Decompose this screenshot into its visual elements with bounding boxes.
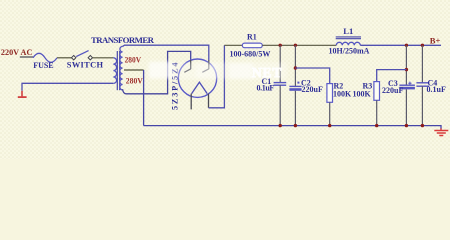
switch S1 terminal left bbox=[72, 56, 76, 60]
tube V1 left anode lead bbox=[190, 60, 192, 69]
rectifier tube V1 envelope bbox=[178, 59, 216, 97]
svg-text:FUSE: FUSE bbox=[33, 61, 53, 70]
wire C1 lower lead bbox=[279, 85, 281, 125]
node R3 tap bbox=[405, 68, 408, 71]
switch S1 blade bbox=[76, 51, 88, 57]
wire ground rail bbox=[144, 126, 441, 129]
svg-text:10H/250mA: 10H/250mA bbox=[329, 47, 370, 56]
svg-text:100-680/5W: 100-680/5W bbox=[230, 50, 271, 59]
inductor L1 winding bbox=[336, 42, 360, 45]
svg-text:B+: B+ bbox=[430, 35, 441, 45]
resistor R1 body bbox=[242, 43, 262, 48]
wire R2 lower lead bbox=[329, 102, 331, 125]
wire cathode rail to R1 bbox=[224, 44, 242, 46]
node rail C4 bbox=[421, 124, 424, 127]
transformer T1 primary winding bbox=[113, 58, 116, 84]
wire input underline bbox=[20, 56, 33, 58]
tube V1 cathode lead bbox=[208, 94, 210, 108]
switch S1 terminal right bbox=[88, 56, 92, 60]
node C1 top bbox=[279, 44, 282, 47]
node rail R3 bbox=[375, 124, 378, 127]
resistor R2 body bbox=[327, 84, 333, 103]
capacitor C2 bbox=[289, 85, 301, 87]
background paper bbox=[0, 0, 450, 159]
capacitor C2 polarity mark bbox=[297, 82, 299, 84]
wire C4 upper lead bbox=[421, 45, 423, 82]
node rail C2 bbox=[294, 124, 297, 127]
node R2 tap bbox=[294, 66, 297, 69]
svg-text:TRANSFORMER: TRANSFORMER bbox=[91, 35, 155, 45]
svg-text:SWITCH: SWITCH bbox=[67, 60, 104, 69]
wire secondary top tap to right anode bbox=[123, 45, 209, 60]
svg-text:280V: 280V bbox=[126, 77, 143, 86]
wire R3 tap horizontal bbox=[377, 70, 407, 82]
svg-text:220uF: 220uF bbox=[302, 85, 323, 94]
wire switch to transformer primary bbox=[93, 57, 114, 59]
wire secondary bottom tap to left anode bbox=[123, 51, 191, 93]
svg-text:220V AC: 220V AC bbox=[1, 48, 33, 57]
capacitor C3 bbox=[399, 84, 415, 86]
wire C2 branch vertical bbox=[294, 45, 296, 86]
node rail C1 bbox=[279, 124, 282, 127]
inductor L1 core bbox=[336, 36, 361, 38]
wire C3 branch vertical upper bbox=[405, 45, 407, 85]
watermark band bbox=[148, 62, 287, 80]
tube V1 filament bbox=[192, 82, 208, 93]
node C4 top bbox=[421, 44, 424, 47]
wire cathode to R1 rail bbox=[209, 45, 225, 108]
wire C4 lower lead bbox=[421, 86, 423, 125]
wire fuse to switch bbox=[57, 57, 72, 59]
wire C2 lower lead bbox=[294, 91, 296, 126]
wire C1 upper lead bbox=[279, 45, 281, 82]
terminal AC neutral (red) bbox=[21, 91, 23, 97]
wire C3 lower lead bbox=[405, 89, 407, 125]
capacitor C1 bbox=[274, 82, 287, 84]
transformer T1 core bbox=[116, 51, 118, 90]
svg-text:NET: NET bbox=[252, 65, 282, 80]
node C3 branch top bbox=[405, 44, 408, 47]
ground symbol bbox=[434, 128, 448, 135]
svg-text:280V: 280V bbox=[125, 55, 142, 64]
svg-text:220uF: 220uF bbox=[382, 86, 403, 95]
node rail C3 bbox=[405, 124, 408, 127]
tube V1 left anode plate bbox=[184, 69, 191, 73]
fuse F1 bbox=[33, 53, 57, 62]
svg-text:100K: 100K bbox=[353, 89, 372, 98]
svg-text:R1: R1 bbox=[247, 32, 257, 41]
wire neutral return bbox=[22, 83, 113, 91]
wire center tap to ground rail bbox=[124, 69, 144, 71]
svg-text:100K: 100K bbox=[333, 89, 352, 98]
tube V1 right anode lead bbox=[208, 60, 210, 69]
wire R2 tap horizontal bbox=[295, 68, 329, 84]
svg-text:0.1uF: 0.1uF bbox=[257, 84, 275, 93]
tube V1 filament left stub bbox=[190, 94, 192, 110]
wire R3 lower lead bbox=[376, 100, 378, 125]
capacitor C3 polarity mark bbox=[408, 82, 411, 85]
svg-text:0.1uF: 0.1uF bbox=[427, 85, 446, 94]
node C2 branch top bbox=[294, 44, 297, 47]
capacitor C4 bbox=[416, 82, 429, 84]
wire R1 to L1 bbox=[262, 44, 336, 46]
tube V1 right anode plate bbox=[202, 69, 209, 73]
resistor R3 body bbox=[374, 82, 380, 101]
svg-text:L1: L1 bbox=[343, 27, 353, 36]
wire L1 to B+ bbox=[360, 44, 441, 46]
transformer T1 secondary winding bbox=[120, 46, 123, 90]
node rail R2 bbox=[328, 124, 331, 127]
